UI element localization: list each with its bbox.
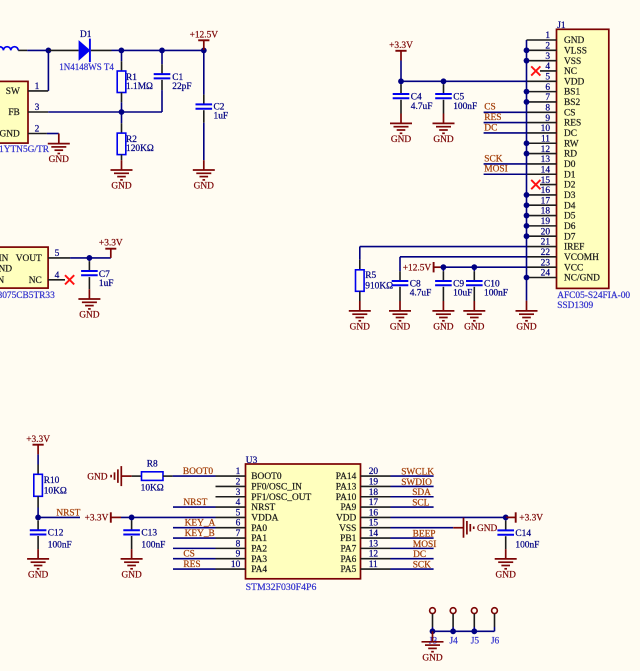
svg-text:12: 12: [541, 145, 551, 155]
svg-text:D3: D3: [564, 191, 576, 201]
junction J1 pin 16 to GND bus: [524, 192, 530, 198]
svg-text:23: 23: [541, 258, 551, 268]
junction J3: [430, 628, 436, 634]
svg-text:NRST: NRST: [183, 498, 207, 508]
svg-text:GND: GND: [464, 323, 485, 333]
resistor R8: [132, 475, 142, 477]
wire pin2 to ground: [47, 133, 59, 135]
junction J1 pin 6 to GND bus: [524, 89, 530, 95]
capacitor C13: [131, 517, 133, 520]
GND bus wire at J1: [526, 40, 528, 301]
wire net MOSI to J1 pin 14: [484, 173, 527, 175]
svg-text:DC: DC: [564, 129, 577, 139]
J1 pin 22 VCOMH: [527, 256, 557, 258]
svg-text:D6: D6: [564, 222, 576, 232]
junction J1 pin 17 to GND bus: [524, 202, 530, 208]
pin 2 GND: [28, 133, 47, 135]
svg-text:SW: SW: [6, 87, 20, 97]
svg-text:GND: GND: [391, 135, 412, 145]
svg-text:EN: EN: [0, 276, 4, 286]
wire net SCK to J1 pin 13: [484, 163, 527, 165]
svg-text:1N4148WS T4: 1N4148WS T4: [59, 62, 114, 72]
svg-text:10uF: 10uF: [453, 289, 472, 299]
J1 pin 10 DC: [527, 132, 557, 134]
svg-text:J6: J6: [491, 636, 500, 646]
svg-text:+3.3V: +3.3V: [99, 239, 123, 249]
svg-text:NC/GND: NC/GND: [564, 274, 600, 284]
J1 pin 4 NC: [540, 70, 557, 72]
wire net SWDIO at U3: [391, 485, 434, 487]
J1 pin 20 D7: [527, 235, 557, 237]
svg-text:GND: GND: [477, 524, 498, 534]
ground under C10: [463, 310, 485, 312]
regulator IC U1 (partial, SW/FB/GND): [0, 81, 28, 143]
svg-text:5: 5: [55, 249, 60, 259]
svg-text:120KΩ: 120KΩ: [126, 144, 154, 154]
ground under C2: [193, 169, 215, 171]
wire VCOMH to C8: [400, 256, 527, 258]
pin 1 SW: [28, 90, 48, 92]
svg-text:BS2: BS2: [564, 98, 580, 108]
J1 pin 8 CS: [527, 111, 557, 113]
wire net SWCLK at U3: [391, 475, 434, 477]
wire joining J3-J6: [433, 630, 495, 632]
svg-text:16: 16: [541, 186, 551, 196]
U3 pin 9 PA3: [216, 558, 246, 560]
svg-text:17: 17: [369, 498, 379, 508]
svg-text:SWDIO: SWDIO: [401, 478, 432, 488]
J1 pin 24 NC/GND: [527, 276, 557, 278]
wire NRST stub: [38, 516, 80, 518]
wire U3 pin 8 stub: [173, 547, 216, 549]
svg-text:1: 1: [236, 467, 241, 477]
svg-text:100nF: 100nF: [48, 540, 72, 550]
svg-text:2: 2: [545, 42, 550, 52]
U3 pin 7 PA1: [216, 537, 246, 539]
svg-text:11: 11: [369, 560, 378, 570]
ground under C7: [78, 298, 100, 300]
U3 pin 18 PA10: [361, 496, 391, 498]
svg-text:100nF: 100nF: [515, 541, 539, 551]
J1 pin 3 VSS: [527, 60, 557, 62]
capacitor C7: [88, 258, 90, 261]
resistor R5: [359, 260, 361, 270]
svg-text:2: 2: [35, 124, 40, 134]
power +3.3V at VDDA: [110, 512, 112, 522]
svg-text:20: 20: [541, 227, 551, 237]
J1 pin 9 RES: [527, 122, 557, 124]
svg-text:9: 9: [236, 550, 241, 560]
ground port at VSS: [463, 518, 465, 538]
svg-text:C12: C12: [48, 529, 64, 539]
resistor R1: [121, 50, 123, 61]
svg-text:DC: DC: [413, 550, 426, 560]
svg-text:D5: D5: [564, 212, 576, 222]
ground under J1 bus: [516, 310, 538, 312]
junction J1 pin 11 to GND bus: [524, 140, 530, 146]
svg-text:GND: GND: [194, 182, 215, 192]
svg-text:4: 4: [545, 62, 550, 72]
svg-text:12: 12: [369, 550, 379, 560]
svg-text:VSS: VSS: [339, 524, 356, 534]
wire net SDA at U3: [391, 496, 434, 498]
svg-text:GND: GND: [121, 571, 142, 581]
diode D1: [79, 40, 91, 61]
J1 pin 18 D5: [527, 215, 557, 217]
U3 pin 15 VSS: [361, 527, 391, 529]
ground under pin2: [48, 143, 70, 145]
wire net DC to J1 pin 10: [484, 132, 527, 134]
svg-text:BEEP: BEEP: [413, 529, 436, 539]
svg-text:1YTN5G/TR: 1YTN5G/TR: [0, 145, 50, 155]
svg-text:24: 24: [541, 269, 551, 279]
wire KEY_A: [173, 527, 216, 529]
wire net SCK at U3: [391, 568, 434, 570]
ground under R5: [349, 310, 371, 312]
svg-text:J4: J4: [450, 636, 459, 646]
svg-text:FB: FB: [8, 108, 19, 118]
ground under C12: [27, 558, 49, 560]
pin 4 NC: [48, 279, 65, 281]
svg-text:2: 2: [236, 477, 241, 487]
svg-text:1: 1: [35, 82, 40, 92]
svg-text:R10: R10: [44, 476, 60, 486]
connector J3: [430, 608, 436, 614]
svg-text:NRST: NRST: [56, 508, 80, 518]
pin 3 FB: [28, 111, 48, 113]
wire net BEEP at U3: [391, 537, 434, 539]
ground port at R8: [120, 466, 122, 486]
J1 pin 19 D6: [527, 225, 557, 227]
svg-text:IREF: IREF: [564, 243, 584, 253]
svg-text:4.7uF: 4.7uF: [410, 289, 432, 299]
U3 pin 10 PA4: [216, 568, 246, 570]
svg-text:PA14: PA14: [336, 472, 357, 482]
connector J6: [492, 608, 498, 614]
svg-text:D7: D7: [564, 232, 576, 242]
svg-text:PB1: PB1: [340, 534, 356, 544]
svg-text:19: 19: [541, 217, 551, 227]
junction J1 pin 12 to GND bus: [524, 151, 530, 157]
wire node A to D1 anode: [48, 49, 78, 51]
wire +12.5V to VCC pin 23: [443, 266, 526, 268]
svg-text:GND: GND: [0, 130, 20, 140]
svg-text:R8: R8: [147, 460, 158, 470]
svg-text:1.1MΩ: 1.1MΩ: [126, 82, 153, 92]
svg-text:MOSI: MOSI: [484, 165, 507, 175]
svg-text:MOSI: MOSI: [413, 540, 436, 550]
U3 pin 20 PA14: [361, 475, 391, 477]
U3 pin 5 VDDA: [216, 516, 246, 518]
wire RES: [173, 568, 216, 570]
svg-text:PA1: PA1: [251, 534, 267, 544]
svg-text:GND: GND: [516, 323, 537, 333]
svg-text:+12.5V: +12.5V: [403, 263, 432, 273]
svg-text:20: 20: [369, 467, 379, 477]
svg-text:D1: D1: [80, 30, 92, 40]
ground under C14: [495, 558, 517, 560]
pin 5 VOUT: [48, 257, 70, 259]
svg-text:1: 1: [545, 31, 550, 41]
capacitor C9: [442, 267, 444, 271]
U3 pin 8 PA2: [216, 547, 246, 549]
ground under C8: [389, 310, 411, 312]
svg-text:18: 18: [541, 207, 551, 217]
wire VSS to ground port: [391, 527, 454, 529]
J1 pin 13 D0: [527, 163, 557, 165]
power +3.3V at J1: [395, 50, 406, 52]
node C junction: [159, 48, 165, 54]
J1 pin 2 VLSS: [527, 49, 557, 51]
wire J3 to ground: [432, 631, 434, 642]
svg-text:GND: GND: [0, 265, 12, 275]
J1 pin 16 D3: [527, 194, 557, 196]
svg-text:GND: GND: [79, 311, 100, 321]
svg-text:3: 3: [545, 52, 550, 62]
svg-text:VOUT: VOUT: [16, 254, 42, 264]
U3 pin 1 BOOT0: [216, 475, 246, 477]
U3 pin 3 PF1/OSC_OUT: [216, 496, 246, 498]
svg-text:VCC: VCC: [564, 263, 583, 273]
svg-text:9: 9: [545, 114, 550, 124]
svg-text:910KΩ: 910KΩ: [365, 282, 393, 292]
svg-text:NRST: NRST: [251, 503, 275, 513]
svg-text:PA6: PA6: [340, 555, 356, 565]
svg-text:CS: CS: [484, 103, 495, 113]
svg-text:RW: RW: [564, 139, 579, 149]
connector J4: [450, 608, 456, 614]
svg-text:BS1: BS1: [564, 88, 580, 98]
svg-text:VSS: VSS: [564, 57, 581, 67]
svg-text:KEY_A: KEY_A: [185, 519, 216, 529]
svg-text:17: 17: [541, 196, 551, 206]
svg-text:SWCLK: SWCLK: [401, 468, 434, 478]
svg-text:GND: GND: [87, 472, 108, 482]
svg-text:C14: C14: [515, 529, 531, 539]
svg-text:7: 7: [545, 93, 550, 103]
junction J1 pin 3 to GND bus: [524, 58, 530, 64]
svg-text:+3.3V: +3.3V: [26, 435, 50, 445]
svg-text:GND: GND: [433, 135, 454, 145]
svg-text:SCL: SCL: [412, 498, 429, 508]
power +3.3V at R10: [33, 444, 44, 446]
node F junction (C7 tap): [87, 255, 93, 261]
ground under C5: [433, 122, 455, 124]
node D junction: [201, 48, 207, 54]
svg-text:1uF: 1uF: [99, 279, 114, 289]
U3 pin 16 VDD: [361, 516, 391, 518]
resistor R2: [121, 112, 123, 123]
wire net MOSI at U3: [391, 547, 434, 549]
no-connect X on J1 pin 15: [531, 180, 540, 189]
svg-text:CS: CS: [183, 550, 194, 560]
wire VOUT to +3.3V: [70, 257, 111, 259]
svg-text:D1: D1: [564, 170, 576, 180]
regulator IC U2 (partial, VIN/GND/EN : VOUT/NC): [0, 247, 48, 288]
svg-text:8: 8: [236, 539, 241, 549]
node E junction (FB divider): [119, 109, 125, 115]
svg-text:16: 16: [369, 508, 379, 518]
svg-text:C13: C13: [141, 529, 157, 539]
svg-text:RES: RES: [183, 560, 200, 570]
svg-text:VDD: VDD: [564, 77, 585, 87]
svg-text:AFC05-S24FIA-00: AFC05-S24FIA-00: [557, 291, 630, 301]
svg-text:15: 15: [541, 176, 551, 186]
svg-text:VIN: VIN: [0, 254, 9, 264]
ground under R2: [111, 169, 133, 171]
svg-text:14: 14: [541, 165, 551, 175]
svg-text:15: 15: [369, 519, 379, 529]
capacitor C4: [400, 81, 402, 84]
svg-text:+3.3V: +3.3V: [85, 514, 109, 524]
wire FB net: [48, 111, 162, 113]
junction J1 pin 18 to GND bus: [524, 213, 530, 219]
wire BOOT0: [173, 475, 216, 477]
svg-text:3: 3: [236, 488, 241, 498]
svg-text:100nF: 100nF: [141, 540, 165, 550]
svg-text:13: 13: [369, 539, 379, 549]
resistor R10: [37, 454, 39, 464]
wire net DC at U3: [391, 558, 434, 560]
svg-text:PF1/OSC_OUT: PF1/OSC_OUT: [251, 493, 311, 503]
U3 pin 12 PA6: [361, 558, 391, 560]
connector J1 body: [557, 29, 609, 288]
svg-text:22pF: 22pF: [172, 82, 191, 92]
svg-text:RD: RD: [564, 150, 577, 160]
U3 pin 4 NRST: [216, 506, 246, 508]
wire +3.3V to VDDA pin 5: [121, 516, 216, 518]
svg-text:BOOT0: BOOT0: [183, 467, 214, 477]
MCU U3 body: [246, 464, 361, 579]
U3 pin 14 PB1: [361, 537, 391, 539]
svg-text:22: 22: [541, 248, 551, 258]
U3 pin 17 PA9: [361, 506, 391, 508]
svg-text:6: 6: [545, 83, 550, 93]
power +12.5V at VCC: [433, 262, 435, 272]
ground under J3: [422, 641, 444, 643]
wire CS: [173, 558, 216, 560]
svg-text:8: 8: [545, 103, 550, 113]
J1 pin 1 GND: [527, 39, 557, 41]
wire VDD to +3.3V: [391, 516, 506, 518]
svg-text:GND: GND: [28, 571, 49, 581]
svg-text:14: 14: [369, 529, 379, 539]
svg-text:13: 13: [541, 155, 551, 165]
svg-text:GND: GND: [111, 182, 132, 192]
ground under C9: [432, 310, 454, 312]
svg-text:VCOMH: VCOMH: [564, 253, 599, 263]
svg-text:J1: J1: [557, 21, 566, 31]
svg-text:D4: D4: [564, 201, 576, 211]
ground under C13: [121, 558, 143, 560]
svg-text:GND: GND: [350, 323, 371, 333]
svg-text:CS: CS: [564, 108, 575, 118]
svg-text:21: 21: [541, 238, 551, 248]
capacitor C2: [203, 50, 205, 94]
wire node A down to SW pin: [47, 50, 49, 91]
power +3.3V at U2: [105, 248, 116, 250]
J1 pin 7 BS2: [527, 101, 557, 103]
svg-text:100nF: 100nF: [484, 289, 508, 299]
svg-text:+12.5V: +12.5V: [190, 31, 219, 41]
svg-text:STM32F030F4P6: STM32F030F4P6: [246, 582, 317, 593]
svg-text:5: 5: [236, 508, 241, 518]
wire D1 cathode to node B: [91, 49, 112, 51]
junction J1 pin 2 to GND bus: [524, 47, 530, 53]
svg-text:PA3: PA3: [251, 555, 267, 565]
U3 pin 19 PA13: [361, 485, 391, 487]
U3 pin 11 PA5: [361, 568, 391, 570]
svg-text:PA7: PA7: [340, 544, 356, 554]
svg-text:NC: NC: [564, 67, 577, 77]
svg-text:PA2: PA2: [251, 544, 267, 554]
svg-text:4.7uF: 4.7uF: [411, 102, 433, 112]
svg-text:PA5: PA5: [340, 565, 356, 575]
junction J1 pin 24 to GND bus: [524, 275, 530, 281]
node M junction (C14): [503, 515, 509, 521]
svg-text:R5: R5: [365, 271, 376, 281]
J1 pin 21 IREF: [527, 246, 557, 248]
node I junction (C9): [441, 264, 447, 270]
wire KEY_B: [173, 537, 216, 539]
svg-text:PA4: PA4: [251, 565, 267, 575]
svg-text:U3: U3: [246, 456, 258, 466]
svg-text:D0: D0: [564, 160, 576, 170]
junction J5: [471, 628, 477, 634]
wire node C to node D: [162, 49, 204, 51]
wire net CS to J1 pin 8: [484, 111, 527, 113]
J1 pin 23 VCC: [527, 266, 557, 268]
svg-text:GND: GND: [496, 571, 517, 581]
svg-text:GND: GND: [422, 653, 443, 663]
svg-text:PA10: PA10: [336, 493, 357, 503]
U3 pin 2 PF0/OSC_IN: [216, 485, 246, 487]
junction J4: [450, 628, 456, 634]
J1 pin 15 D2: [540, 184, 557, 186]
svg-text:10KΩ: 10KΩ: [44, 487, 67, 497]
no-connect X on J1 pin 4: [531, 66, 540, 75]
svg-text:SDA: SDA: [412, 488, 431, 498]
svg-text:VLSS: VLSS: [564, 46, 587, 56]
svg-text:3: 3: [35, 103, 40, 113]
svg-text:D2: D2: [564, 181, 576, 191]
svg-text:BOOT0: BOOT0: [251, 472, 282, 482]
wire inductor to node A: [27, 49, 48, 51]
svg-text:GND: GND: [49, 155, 70, 165]
svg-text:GND: GND: [390, 323, 411, 333]
svg-text:SCK: SCK: [484, 154, 502, 164]
node J junction (C10): [471, 264, 477, 270]
node H junction (C5): [441, 78, 447, 84]
connector J5: [471, 608, 477, 614]
wire net RES to J1 pin 9: [484, 122, 527, 124]
svg-text:GND: GND: [433, 323, 454, 333]
inductor L1: [0, 47, 18, 51]
J1 pin 17 D4: [527, 204, 557, 206]
node B junction: [119, 48, 125, 54]
svg-text:6: 6: [236, 519, 241, 529]
svg-text:PF0/OSC_IN: PF0/OSC_IN: [251, 483, 302, 493]
no-connect X on pin 4: [65, 275, 74, 284]
svg-text:7: 7: [236, 529, 241, 539]
junction J1 pin 20 to GND bus: [524, 233, 530, 239]
node K junction (C13): [129, 515, 135, 521]
svg-text:VDD: VDD: [336, 514, 357, 524]
J1 pin 12 RD: [527, 153, 557, 155]
junction J1 pin 19 to GND bus: [524, 223, 530, 229]
svg-text:18: 18: [369, 488, 379, 498]
svg-text:RES: RES: [564, 119, 581, 129]
